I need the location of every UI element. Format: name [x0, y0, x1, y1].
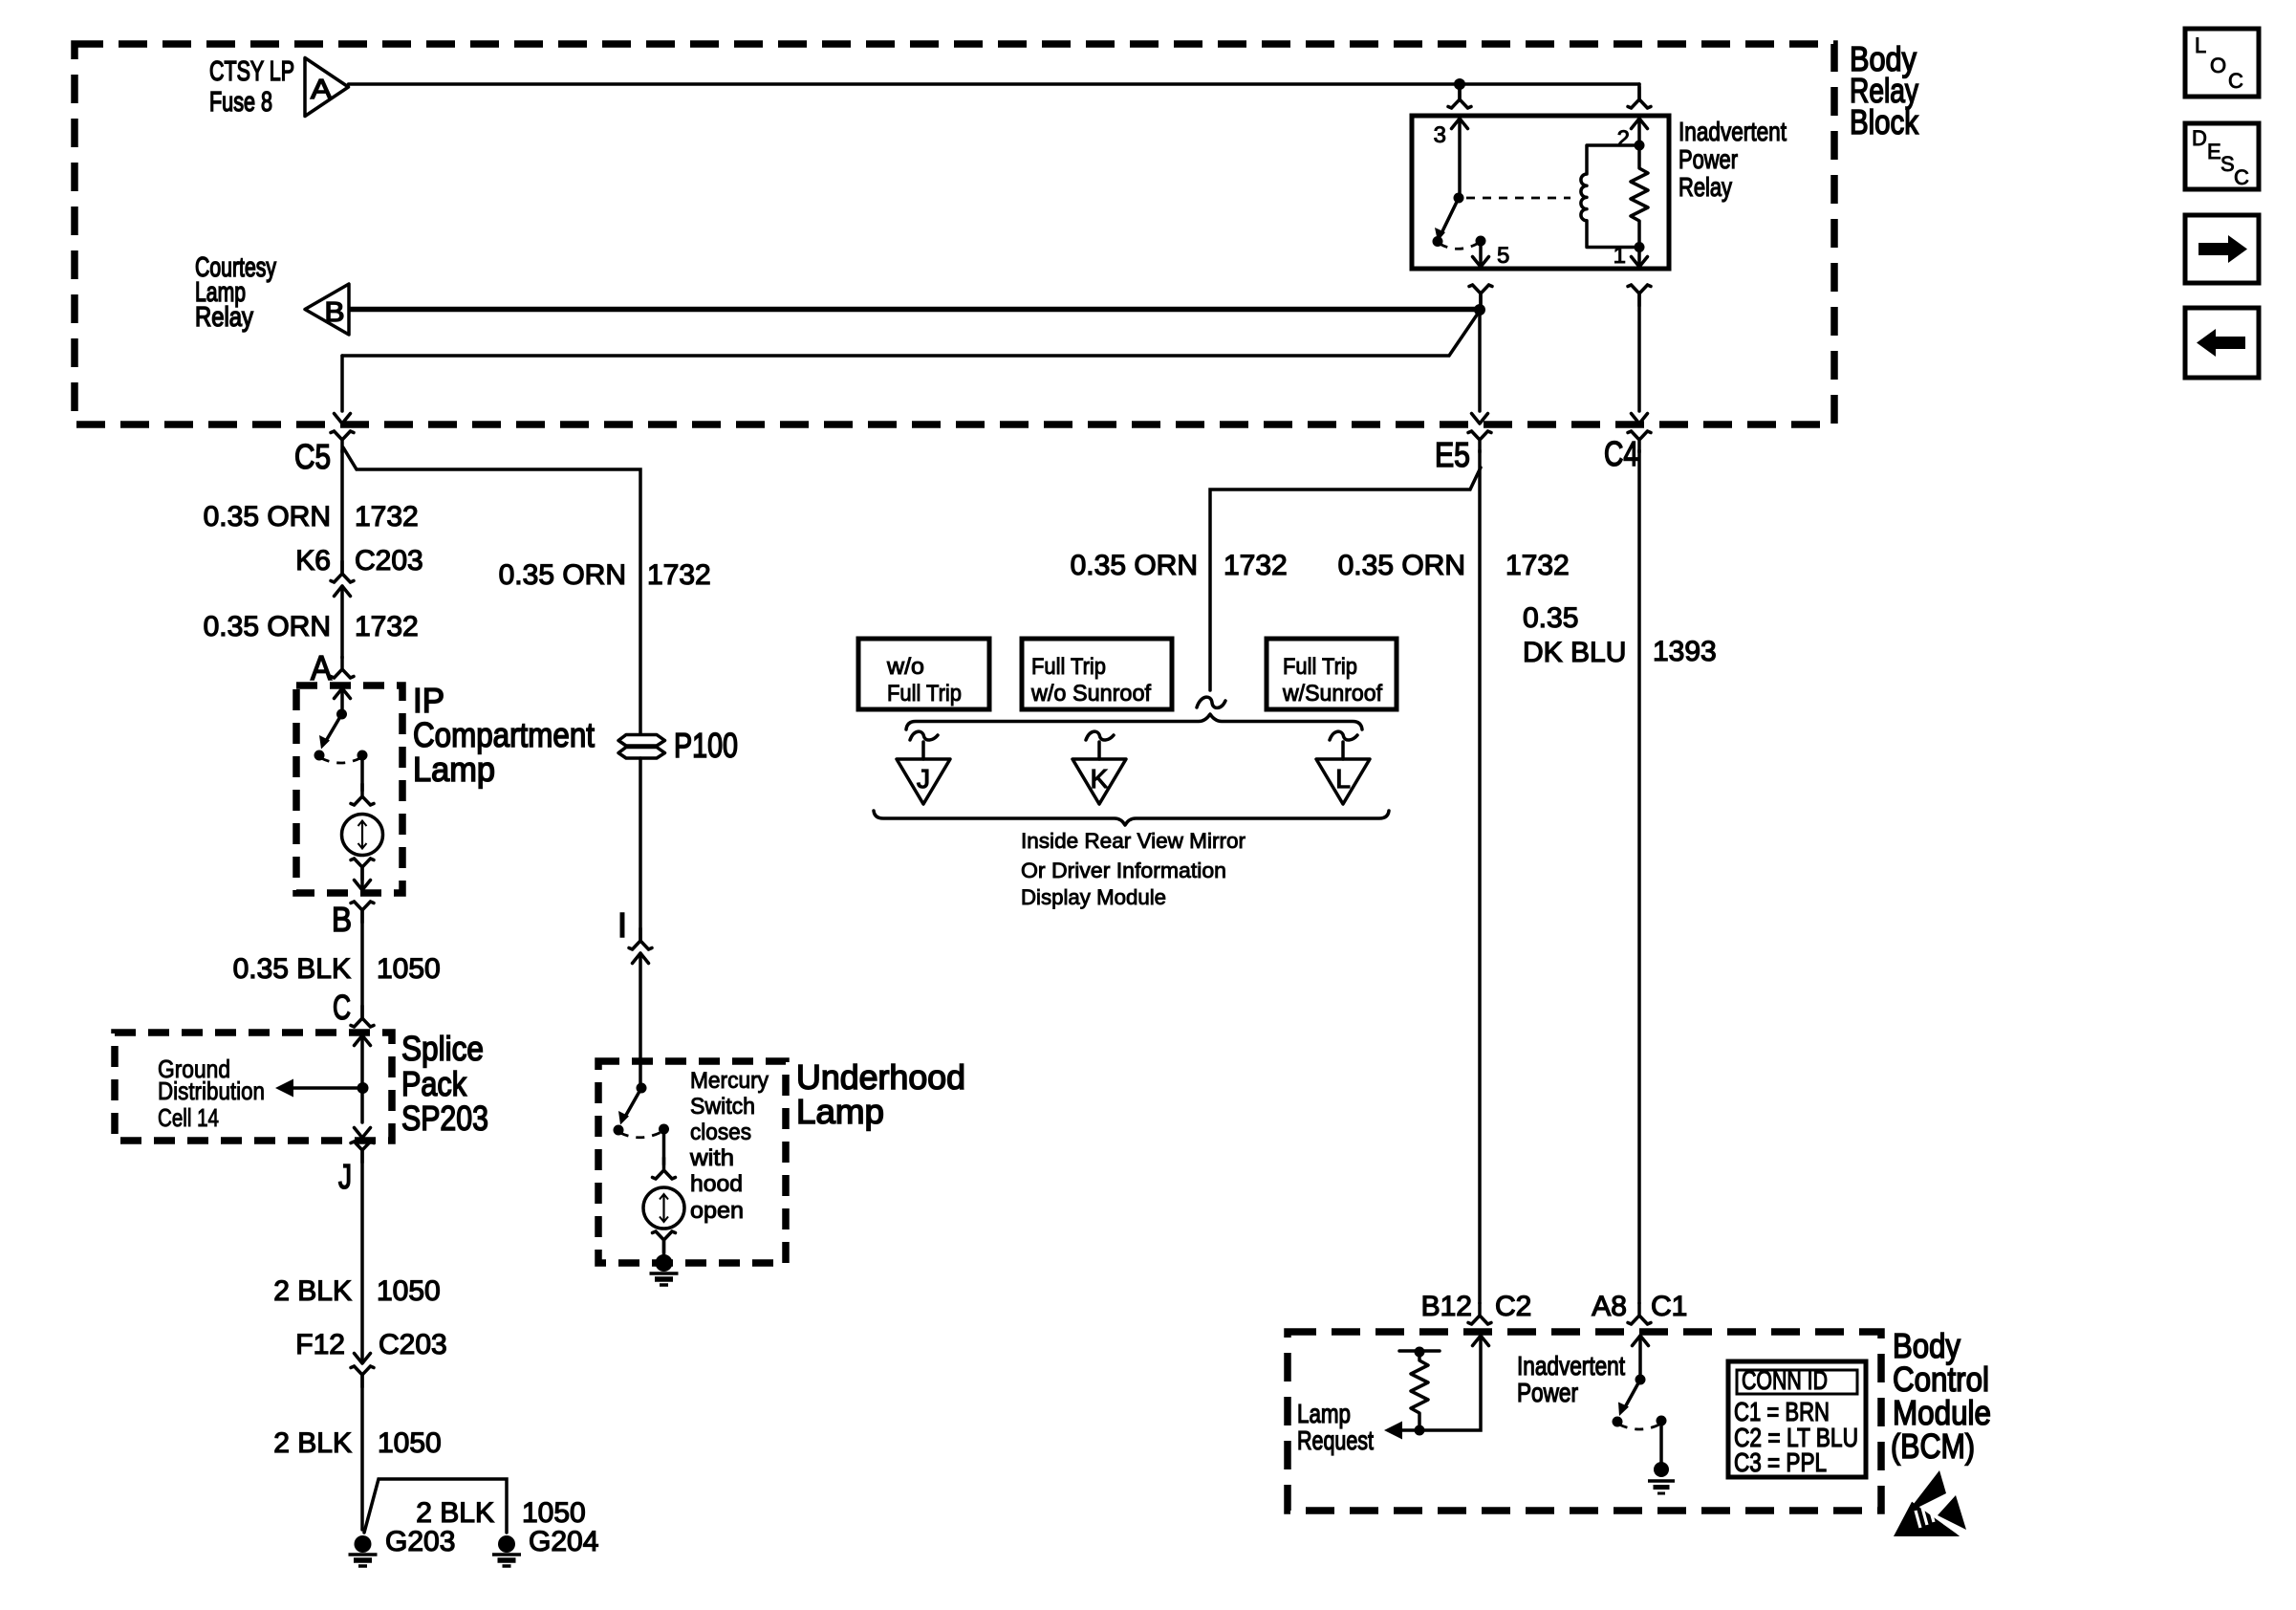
ESD symbol	[1894, 1470, 1968, 1537]
E5 crossing at relay block border	[1472, 414, 1488, 424]
svg-text:Inadvertent: Inadvertent	[1679, 117, 1787, 146]
svg-text:J: J	[917, 764, 930, 794]
svg-text:DK BLU: DK BLU	[1523, 637, 1626, 668]
connector J below splice pack	[351, 1142, 374, 1163]
svg-text:w/Sunroof: w/Sunroof	[1282, 681, 1382, 707]
ground distribution arrow	[292, 1086, 363, 1090]
svg-text:S: S	[2220, 152, 2235, 176]
relay switch pivot	[1454, 193, 1464, 204]
svg-text:0.35 ORN: 0.35 ORN	[1338, 550, 1465, 581]
connector A triangle (CTSY LP Fuse 8)	[209, 56, 349, 118]
svg-text:Distribution: Distribution	[158, 1077, 265, 1105]
svg-text:2 BLK: 2 BLK	[273, 1427, 352, 1459]
Body Relay Block dashed box	[75, 44, 1834, 424]
svg-text:Cell 14: Cell 14	[158, 1103, 219, 1132]
BCM label	[1891, 1326, 1991, 1466]
svg-text:1732: 1732	[355, 501, 419, 533]
svg-text:0.35 ORN: 0.35 ORN	[204, 611, 331, 642]
wire E5 branch to display modules	[1210, 468, 1481, 690]
Splice Pack dashed box	[115, 1033, 392, 1141]
junction of B wire and pin5 wire	[1474, 304, 1485, 315]
inadvertent power switch	[1638, 1336, 1642, 1380]
ground distribution text	[158, 1055, 265, 1132]
svg-text:1: 1	[1614, 243, 1626, 269]
svg-text:1732: 1732	[1505, 550, 1570, 581]
IP lamp switch	[340, 688, 344, 714]
C4 crossing at relay block border	[1632, 414, 1648, 424]
svg-text:Underhood: Underhood	[796, 1057, 965, 1097]
svg-text:B12: B12	[1421, 1291, 1472, 1322]
relay pin 5 wire and arrow	[1476, 236, 1486, 247]
B12 C2 crossing into BCM	[1468, 1303, 1491, 1324]
splice pack label	[401, 1029, 488, 1138]
relay pin 2 arrow	[1632, 119, 1648, 129]
svg-text:Request: Request	[1297, 1425, 1374, 1455]
svg-text:E5: E5	[1435, 435, 1470, 474]
Body Control Module dashed box	[1288, 1332, 1881, 1511]
svg-text:1050: 1050	[377, 1275, 441, 1307]
CONN ID table	[1728, 1361, 1866, 1477]
A8 C1 crossing into BCM	[1628, 1303, 1651, 1324]
Underhood Lamp dashed box	[598, 1061, 786, 1263]
svg-text:IP: IP	[413, 681, 444, 720]
lamp request wire	[1401, 1336, 1481, 1430]
svg-text:C5: C5	[294, 437, 331, 476]
svg-text:Power: Power	[1679, 144, 1738, 174]
wire from B to E5 junction	[349, 307, 1480, 313]
svg-text:P100: P100	[674, 726, 738, 765]
svg-text:with: with	[689, 1145, 734, 1171]
option box w/o Full Trip	[858, 639, 989, 709]
svg-text:A8: A8	[1592, 1291, 1627, 1322]
svg-text:C203: C203	[379, 1329, 447, 1360]
wire branch from C5 to P100	[343, 447, 640, 734]
ground branch wire to G204	[364, 1479, 507, 1533]
svg-text:3: 3	[1434, 122, 1446, 148]
svg-text:Relay: Relay	[195, 302, 253, 333]
svg-text:C3 = PPL: C3 = PPL	[1734, 1447, 1827, 1477]
sidebar LOC button	[2185, 29, 2259, 97]
svg-text:w/o Sunroof: w/o Sunroof	[1030, 681, 1151, 707]
svg-text:L: L	[1335, 764, 1351, 794]
relay label	[1679, 117, 1787, 202]
svg-text:C: C	[2234, 165, 2249, 189]
svg-text:SP203: SP203	[401, 1099, 488, 1138]
svg-text:hood: hood	[690, 1171, 743, 1197]
inline connector C203	[331, 561, 354, 582]
svg-text:C2: C2	[1495, 1291, 1531, 1322]
mercury switch	[637, 1083, 647, 1094]
svg-text:L: L	[2195, 33, 2206, 57]
triangle J	[897, 731, 950, 804]
B branch lower wire	[342, 311, 1480, 356]
svg-text:open: open	[690, 1198, 744, 1224]
sidebar DESC button	[2185, 123, 2259, 189]
svg-text:O: O	[2210, 54, 2226, 77]
svg-text:0.35 ORN: 0.35 ORN	[1071, 550, 1198, 581]
pin 1 fork below relay	[1628, 285, 1651, 306]
svg-text:E: E	[2207, 140, 2221, 163]
svg-text:G203: G203	[385, 1526, 455, 1557]
svg-text:Block: Block	[1850, 102, 1919, 141]
wire P100 to underhood lamp	[639, 758, 642, 941]
svg-text:Lamp: Lamp	[413, 750, 495, 789]
svg-text:2 BLK: 2 BLK	[416, 1497, 494, 1529]
E5 wire down to border	[1478, 310, 1482, 411]
svg-text:B: B	[332, 900, 352, 939]
C5 wire upper	[340, 356, 344, 411]
svg-text:Full Trip: Full Trip	[887, 681, 962, 707]
lamp request resistor	[1399, 1349, 1440, 1353]
svg-text:J: J	[338, 1157, 352, 1196]
relay pin 1 wire and arrow	[1637, 248, 1641, 267]
connector B below IP lamp	[351, 902, 374, 923]
svg-text:Fuse 8: Fuse 8	[209, 87, 272, 118]
wire E5 down to BCM	[1478, 450, 1482, 1303]
svg-text:F12: F12	[295, 1329, 345, 1360]
inline connector C203 (F12)	[355, 1354, 371, 1364]
tilde optional splice	[1197, 697, 1225, 707]
underhood lamp label	[796, 1057, 965, 1131]
relay coil link dashed	[1466, 197, 1570, 200]
svg-text:Full Trip: Full Trip	[1031, 654, 1106, 680]
svg-text:1732: 1732	[355, 611, 419, 642]
svg-text:C: C	[2228, 69, 2243, 93]
BCM ground	[1654, 1462, 1669, 1477]
svg-text:Pack: Pack	[401, 1064, 467, 1103]
relay switch dashed throw arc	[1440, 243, 1479, 249]
svg-text:1050: 1050	[378, 1427, 442, 1459]
svg-text:C203: C203	[355, 545, 423, 577]
svg-text:A: A	[311, 75, 333, 105]
svg-text:Power: Power	[1517, 1378, 1578, 1407]
triangle K	[1072, 731, 1126, 804]
svg-text:B: B	[325, 297, 345, 328]
Inadvertent Power Relay box	[1412, 116, 1669, 269]
svg-text:0.35 ORN: 0.35 ORN	[204, 501, 331, 533]
svg-text:1732: 1732	[1224, 550, 1288, 581]
svg-text:Full Trip: Full Trip	[1283, 654, 1357, 680]
svg-text:Or Driver Information: Or Driver Information	[1021, 859, 1226, 882]
option box Full Trip w/Sunroof	[1267, 639, 1397, 709]
svg-text:closes: closes	[690, 1120, 751, 1145]
wire stub pin3	[1458, 84, 1462, 99]
svg-text:w/o: w/o	[886, 654, 924, 680]
wire C4 down to BCM	[1637, 450, 1641, 1303]
svg-text:C4: C4	[1604, 434, 1638, 473]
wire C5 down to A	[340, 450, 344, 574]
svg-text:K6: K6	[295, 545, 331, 577]
brace under triangles	[874, 811, 1389, 825]
underhood lamp bulb	[662, 1129, 666, 1164]
sidebar forward arrow button	[2185, 215, 2259, 283]
relay switch arm	[1442, 198, 1459, 231]
svg-text:2: 2	[1617, 126, 1630, 152]
IP lamp label	[413, 681, 595, 789]
relay coil/resistor nodes	[1635, 141, 1645, 151]
C5 crossing at relay block border	[335, 414, 351, 424]
relay resistor	[1631, 145, 1648, 248]
relay coil	[1581, 145, 1639, 248]
svg-text:I: I	[617, 905, 627, 945]
svg-text:Display Module: Display Module	[1021, 885, 1166, 909]
display module caption	[1021, 829, 1245, 909]
svg-text:0.35: 0.35	[1523, 602, 1578, 634]
svg-text:K: K	[1091, 764, 1109, 794]
svg-text:G204: G204	[529, 1526, 598, 1557]
IP lamp bulb	[360, 755, 364, 791]
relay switch contact dot	[1433, 236, 1443, 247]
svg-text:Mercury: Mercury	[690, 1068, 769, 1094]
pin 5 fork below relay	[1469, 285, 1492, 306]
option box Full Trip w/o Sunroof	[1022, 639, 1172, 709]
triangle L	[1316, 731, 1370, 804]
ground G203	[349, 1535, 378, 1566]
svg-text:Compartment: Compartment	[413, 715, 595, 754]
svg-text:Splice: Splice	[401, 1029, 484, 1068]
svg-text:1732: 1732	[647, 559, 711, 591]
svg-text:C: C	[333, 988, 351, 1027]
svg-text:2 BLK: 2 BLK	[273, 1275, 352, 1307]
IP Compartment Lamp dashed box	[296, 685, 402, 893]
ground G204	[492, 1535, 521, 1566]
splice pack wire	[360, 1035, 364, 1122]
brace over options	[906, 714, 1362, 729]
wire from A to relay	[349, 82, 1640, 86]
svg-text:0.35 ORN: 0.35 ORN	[499, 559, 626, 591]
svg-text:1050: 1050	[522, 1497, 586, 1529]
svg-text:5: 5	[1497, 243, 1509, 269]
in-line connector P100	[618, 735, 665, 759]
svg-text:Lamp: Lamp	[796, 1092, 884, 1131]
node junction on A wire above pin 3	[1454, 78, 1465, 90]
svg-text:(BCM): (BCM)	[1891, 1426, 1975, 1466]
svg-text:CONN ID: CONN ID	[1742, 1365, 1828, 1395]
connector B triangle (Courtesy Lamp Relay)	[195, 252, 349, 335]
svg-text:1393: 1393	[1653, 636, 1717, 667]
mercury switch text	[689, 1068, 769, 1224]
wire corner down to pin 2	[1637, 84, 1641, 99]
svg-text:A: A	[311, 648, 332, 687]
svg-text:Relay: Relay	[1679, 172, 1732, 202]
svg-text:D: D	[2192, 126, 2207, 150]
svg-text:Inside Rear View Mirror: Inside Rear View Mirror	[1021, 829, 1245, 853]
svg-text:Inadvertent: Inadvertent	[1517, 1351, 1625, 1381]
splice junction node	[357, 1082, 369, 1094]
sidebar back arrow button	[2185, 308, 2259, 378]
underhood lamp ground	[650, 1254, 679, 1285]
svg-text:CTSY LP: CTSY LP	[209, 56, 294, 87]
svg-text:1050: 1050	[377, 953, 441, 985]
relay pin 3 arrow and wire	[1452, 119, 1468, 129]
Body Relay Block label	[1850, 39, 1919, 141]
svg-text:Switch: Switch	[690, 1094, 755, 1120]
svg-text:Lamp: Lamp	[1297, 1399, 1351, 1428]
svg-text:C1: C1	[1651, 1291, 1687, 1322]
svg-text:0.35 BLK: 0.35 BLK	[233, 953, 351, 985]
